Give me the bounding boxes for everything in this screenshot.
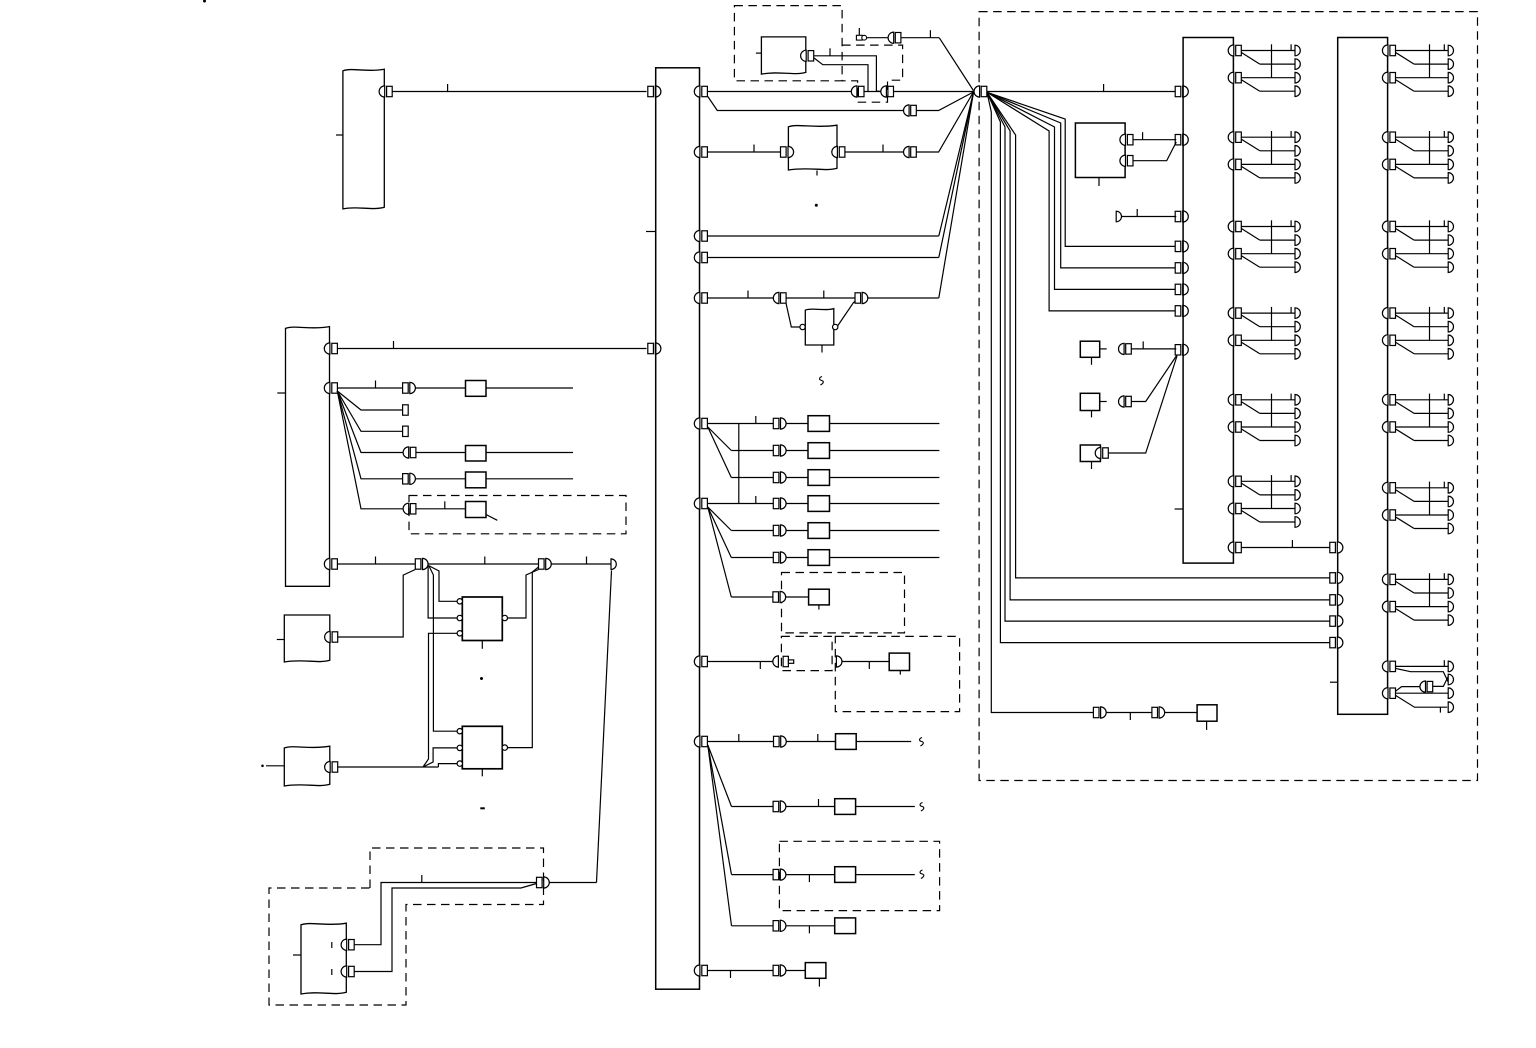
- terminal lamp t3: [1448, 248, 1453, 259]
- wire lamp h2: [1414, 326, 1448, 328]
- wire C1-C2: [864, 91, 881, 93]
- terminal lamp t4: [1448, 173, 1453, 184]
- connector G23-row1: [1382, 221, 1388, 232]
- terminal lamp t4: [1448, 262, 1453, 273]
- wire T2 to PCB1: [1122, 216, 1177, 218]
- wire row3: [731, 477, 773, 479]
- wire A1-1 to PCB1: [1133, 139, 1176, 141]
- fuse panel PCB1: [1183, 38, 1233, 564]
- wire lamp vertical: [1271, 307, 1273, 340]
- connector FB-3: [324, 558, 330, 569]
- wire row10: [732, 806, 774, 808]
- wire lamp d2: [1396, 429, 1415, 441]
- tick sp b: [1439, 707, 1441, 712]
- wire number tick: [882, 145, 884, 153]
- wire number tick: [484, 557, 486, 565]
- wire lamp vertical: [1429, 482, 1431, 515]
- wire lamp h4: [1414, 177, 1448, 179]
- dashed option box top: [734, 6, 842, 81]
- wire lamp h4: [1260, 90, 1295, 92]
- connector bus-R1: [694, 86, 700, 97]
- wire lamp d1: [1396, 490, 1415, 502]
- pin stub diode bottom: [821, 345, 823, 353]
- wire row8 seg2: [842, 661, 889, 663]
- wire fan d: [708, 507, 732, 558]
- pin stub A1 bottom: [1098, 178, 1100, 187]
- terminal lamp t3: [1295, 159, 1300, 170]
- wire lamp h1: [1241, 136, 1295, 138]
- wire FB to bus: [337, 348, 646, 350]
- connector G21-row1: [1382, 45, 1388, 56]
- wire lamp d1: [1241, 139, 1259, 151]
- load box M11: [835, 867, 856, 883]
- connector J15: [888, 32, 894, 43]
- wire SW2 to pair: [1100, 401, 1107, 403]
- connector stub b: [403, 426, 409, 436]
- terminal lamp t1: [1448, 45, 1453, 56]
- battery B1 (broken-edge box): [343, 69, 384, 209]
- terminal lamp t2: [1295, 408, 1300, 419]
- wire fan diag 236: [939, 93, 974, 237]
- wire fan g: [708, 745, 732, 875]
- wire feed seg: [708, 91, 851, 93]
- wire number tick: [730, 971, 732, 979]
- wire fan FB2-a: [337, 391, 402, 410]
- wire row6: [731, 557, 773, 559]
- wire lamp h2: [1414, 63, 1448, 65]
- connector J6: [415, 559, 421, 569]
- connector G13-row2: [1228, 248, 1234, 259]
- connector FAN splice: [974, 86, 980, 97]
- terminal lamp t3: [1448, 159, 1453, 170]
- wire row 298 seg3: [868, 297, 939, 299]
- connector G15-row1: [1228, 394, 1234, 405]
- connector P1: [773, 418, 779, 428]
- wire K2 out: [486, 452, 573, 454]
- wire lamp d1: [1396, 315, 1415, 327]
- wire J9 fan diag: [916, 92, 973, 111]
- terminal lamp t1: [1448, 483, 1453, 494]
- terminal lamp t1: [1295, 308, 1300, 319]
- dash mark: [480, 807, 485, 809]
- terminal lamp t1: [1448, 132, 1453, 143]
- wire J7 end: [551, 563, 611, 565]
- connector G16-row1: [1228, 476, 1234, 487]
- pin stub battery left: [336, 134, 343, 136]
- wire A1-2 to PCB1: [1133, 142, 1176, 161]
- connector P4: [773, 498, 779, 508]
- pin circle U1-out: [502, 615, 507, 620]
- wire number tick: [808, 926, 810, 934]
- wire lamp h4: [1414, 266, 1448, 268]
- junction harness bus: [656, 68, 700, 989]
- wire J6 to U2-1: [429, 566, 457, 731]
- connector G13-row1: [1228, 221, 1234, 232]
- dashed option box row11: [779, 841, 939, 910]
- connector PCB1-Lh: [1175, 345, 1181, 355]
- wire sp alt2: [1396, 695, 1448, 707]
- tick lamp: [1290, 394, 1292, 400]
- terminal lamp t2: [1295, 321, 1300, 332]
- terminal lamp t3: [1448, 601, 1453, 612]
- load box M3: [808, 470, 830, 486]
- pin stub M13: [818, 978, 820, 986]
- connector RL-2: [341, 966, 347, 977]
- connector J13 with tab: [773, 656, 779, 667]
- wire P6-M6: [786, 557, 808, 559]
- wire K1 out: [486, 387, 573, 389]
- connector G26-row2: [1382, 509, 1388, 520]
- wire number tick: [929, 30, 931, 38]
- connector bus-R2: [694, 146, 700, 157]
- wire lamp h2: [1260, 326, 1295, 328]
- wire row13 seg1: [708, 970, 773, 972]
- wire number tick: [755, 416, 757, 424]
- connector G28-row1: [1382, 661, 1388, 672]
- wire lamp h3: [1241, 253, 1295, 255]
- terminal lamp t3: [1295, 72, 1300, 83]
- tick PCB1 left: [1175, 508, 1184, 510]
- wire fuse out: [867, 37, 889, 39]
- wire lamp h3: [1396, 339, 1449, 341]
- connector J8: [537, 877, 543, 887]
- wire row9 seg2: [786, 741, 835, 743]
- terminal lamp t4: [1295, 173, 1300, 184]
- wire P5-M5: [786, 530, 808, 532]
- wire drop M3: [987, 92, 1176, 268]
- connector PCB2-L2: [1330, 595, 1336, 605]
- wire number tick: [375, 381, 377, 389]
- pin stub SW1: [1091, 357, 1093, 365]
- wire drop: [708, 97, 904, 111]
- connector bus-R7: [694, 498, 700, 509]
- wire row 236: [708, 235, 939, 237]
- wire lamp h3: [1396, 426, 1449, 428]
- wire lamp h4: [1260, 353, 1295, 355]
- terminal sp t4: [1448, 702, 1453, 713]
- wire M6 out: [830, 557, 940, 559]
- wire lamp h1: [1241, 312, 1295, 314]
- wire lamp h2: [1414, 412, 1448, 414]
- pin stub S1 left: [277, 639, 285, 641]
- connector J14: [836, 656, 842, 667]
- wire lamp h3: [1241, 339, 1295, 341]
- dot junction: [480, 677, 483, 680]
- wire lamp d1: [1241, 402, 1259, 414]
- terminal lamp t1: [1448, 308, 1453, 319]
- wire P7-M7: [786, 596, 809, 598]
- wire lamp d1: [1396, 581, 1415, 593]
- wire lamp h3: [1241, 77, 1295, 79]
- wire sp row2-pair: [1396, 687, 1421, 692]
- connector bus-left top: [648, 86, 654, 96]
- wire lamp h1: [1241, 480, 1295, 482]
- connector G24-row1: [1382, 308, 1388, 319]
- connector J17: [1119, 396, 1125, 407]
- load box M13: [805, 963, 826, 979]
- wire drop M2: [987, 92, 1176, 289]
- diode module (broken top): [805, 309, 834, 345]
- wire lamp h3: [1241, 426, 1295, 428]
- gate module U2: [462, 726, 502, 769]
- pin circle U1-2: [457, 615, 462, 620]
- connector LC-out: [832, 146, 838, 157]
- wire IL path1: [814, 56, 881, 92]
- terminal lamp t1: [1295, 476, 1300, 487]
- wire lamp h2: [1260, 239, 1295, 241]
- wire drop M4: [987, 92, 1176, 246]
- wire row11 seg2: [786, 874, 835, 876]
- connector P5: [773, 525, 779, 535]
- terminal lamp t2: [1295, 146, 1300, 157]
- pin circle U1-3: [457, 631, 462, 636]
- wire number tick: [817, 734, 819, 742]
- wire number tick: [444, 501, 446, 509]
- squiggle row10: [920, 803, 924, 812]
- connector G23-row2: [1382, 248, 1388, 259]
- terminal lamp t2: [1448, 496, 1453, 507]
- tick lamp: [1290, 307, 1292, 313]
- wire row10 seg2: [786, 806, 835, 808]
- wire number tick: [818, 799, 820, 807]
- connector bus-R10: [694, 965, 700, 976]
- connector P10: [773, 801, 779, 811]
- dot S2: [261, 765, 264, 768]
- wire kink to U2-2: [423, 748, 457, 767]
- wire lamp vertical: [1429, 394, 1431, 427]
- connector stub a: [403, 405, 409, 415]
- connector J11: [773, 292, 779, 303]
- lamp check module (broken edges): [788, 125, 837, 170]
- wire number tick: [755, 496, 757, 504]
- connector J12: [855, 293, 861, 303]
- terminal lamp t2: [1448, 321, 1453, 332]
- terminal lamp t1: [1295, 132, 1300, 143]
- connector PCB1-Lg: [1175, 306, 1181, 316]
- wire step to U2-3: [438, 764, 457, 767]
- wire battery to bus: [392, 91, 646, 93]
- terminal sp t1: [1448, 661, 1453, 672]
- connector P2: [773, 445, 779, 455]
- dashed option box row8-b: [835, 636, 959, 711]
- connector C1a: [851, 86, 857, 97]
- connector G12-row2: [1228, 159, 1234, 170]
- connector G27-row2: [1382, 601, 1388, 612]
- terminal lamp t2: [1448, 146, 1453, 157]
- tick lamp: [1290, 475, 1292, 481]
- wire fan FB2-d: [337, 391, 402, 479]
- connector G25-row2: [1382, 421, 1388, 432]
- dot mark: [815, 204, 818, 207]
- wire diode up to J12: [838, 301, 856, 326]
- wire lamp d1: [1241, 229, 1259, 241]
- wire lamp vertical: [1271, 475, 1273, 508]
- wire J4 to K3: [415, 478, 465, 480]
- tick lamp: [1443, 44, 1445, 50]
- connector P13: [773, 965, 779, 975]
- terminal lamp t1: [1295, 221, 1300, 232]
- wire lamp h4: [1414, 90, 1448, 92]
- wire fan c: [708, 507, 732, 531]
- wire lamp d2: [1396, 256, 1415, 268]
- wire J5 to K4: [416, 508, 466, 510]
- terminal lamp t2: [1448, 59, 1453, 70]
- wire lamp d2: [1241, 429, 1259, 441]
- connector G14-row2: [1228, 335, 1234, 346]
- wire row8 seg1: [708, 661, 773, 663]
- wire fan diag 257: [939, 93, 974, 258]
- relay box K1: [466, 381, 487, 397]
- squiggle row11: [920, 870, 924, 879]
- wire lamp h4: [1414, 353, 1448, 355]
- wire lamp d1: [1241, 53, 1259, 65]
- connector RL-1: [341, 939, 347, 950]
- wire sp alt1: [1396, 668, 1449, 682]
- terminal lamp t3: [1295, 503, 1300, 514]
- wire chain seg3: [1165, 712, 1197, 714]
- wire fan b: [708, 427, 732, 478]
- wire lamp d2: [1396, 342, 1415, 354]
- wire lamp h3: [1396, 163, 1449, 165]
- terminal T1: [611, 559, 616, 570]
- terminal lamp t3: [1295, 422, 1300, 433]
- wire lamp d2: [1241, 511, 1259, 523]
- wire lamp h1: [1396, 399, 1449, 401]
- relay box K4: [466, 502, 487, 518]
- terminal T2: [1116, 211, 1121, 222]
- tick lamp: [1443, 482, 1445, 488]
- wire lamp h4: [1414, 619, 1448, 621]
- connector bus-R5: [694, 292, 700, 303]
- terminal lamp t1: [1295, 395, 1300, 406]
- connector G12-row1: [1228, 132, 1234, 143]
- wire FB-2 feed: [337, 387, 402, 389]
- wire number tick: [1142, 132, 1144, 140]
- wire row4: [708, 503, 774, 505]
- wire row11: [732, 874, 774, 876]
- connector G11-row2: [1228, 72, 1234, 83]
- wire lamp h1: [1396, 578, 1449, 580]
- connector bus-R6: [694, 418, 700, 429]
- dashed option outline rear lamp: [269, 848, 544, 1005]
- sensor box S2 (broken edges): [284, 746, 330, 786]
- wire J11-J12: [786, 297, 855, 299]
- dashed main harness box: [979, 12, 1477, 781]
- terminal lamp t4: [1295, 349, 1300, 360]
- terminal lamp t4: [1448, 523, 1453, 534]
- pin circle U1-1: [457, 599, 462, 604]
- wire row1: [708, 423, 774, 425]
- terminal lamp t4: [1295, 435, 1300, 446]
- wire lamp d1: [1241, 483, 1259, 495]
- wire M11 out: [856, 874, 915, 876]
- connector PCB2-L0: [1330, 542, 1336, 552]
- wire lamp h4: [1414, 440, 1448, 442]
- load box M4: [808, 496, 830, 512]
- connector J7: [539, 559, 545, 569]
- wire number tick: [375, 557, 377, 565]
- connector PCB1-Lb: [1175, 135, 1181, 145]
- wire lamp h1: [1396, 50, 1449, 52]
- wire K3 out: [486, 478, 573, 480]
- wire drop M1: [987, 92, 1176, 311]
- pin circle U2-3: [457, 761, 462, 766]
- load box M7: [809, 589, 830, 605]
- pin stub interlock left: [756, 52, 762, 54]
- pin circle D-in: [800, 324, 805, 329]
- connector G28-row2: [1382, 688, 1388, 699]
- dashed option notch: [842, 45, 903, 102]
- pin stub SW2: [1091, 411, 1093, 418]
- wire number tick: [1129, 713, 1131, 721]
- squiggle continuation: [820, 377, 824, 386]
- wire lamp vertical: [1429, 131, 1431, 164]
- wire lamp h3: [1396, 606, 1449, 608]
- wire PCB1-PCB2: [1241, 547, 1330, 549]
- wire number tick: [808, 875, 810, 883]
- tick lamp: [1443, 307, 1445, 313]
- wire lamp vertical: [1429, 307, 1431, 340]
- connector G16-row2: [1228, 503, 1234, 514]
- switch box SW2: [1080, 393, 1099, 410]
- connector bus-R4: [694, 252, 700, 263]
- wire fan a: [708, 427, 732, 451]
- wire number tick: [753, 145, 755, 153]
- connector bus-R9: [694, 736, 700, 747]
- wire lamp h1: [1241, 50, 1295, 52]
- pin circle U2-out: [502, 745, 507, 750]
- connector S1: [325, 631, 331, 642]
- connector P12: [773, 921, 779, 931]
- wire number tick: [1103, 84, 1105, 92]
- wire J6 to U1-2: [428, 566, 457, 618]
- wire lamp h3: [1241, 508, 1295, 510]
- control module A1: [1075, 123, 1125, 178]
- connector G15-row2: [1228, 421, 1234, 432]
- wire lamp d2: [1241, 166, 1259, 178]
- connector G25-row1: [1382, 394, 1388, 405]
- dashed option box row8-a: [781, 636, 832, 670]
- wire lamp h3: [1396, 514, 1449, 516]
- vertical link bar: [738, 424, 740, 504]
- pin mark 2: [331, 969, 333, 975]
- tick lamp: [1290, 220, 1292, 226]
- wire fan FB2-b: [337, 391, 402, 431]
- terminal lamp t2: [1295, 59, 1300, 70]
- wire RL-2 up: [354, 884, 536, 972]
- wire lamp h2: [1414, 239, 1448, 241]
- dot page mark: [203, 0, 206, 3]
- tick bus left: [646, 231, 656, 233]
- connector PCB1-Ld: [1175, 241, 1181, 251]
- wire number tick: [747, 291, 749, 299]
- connector PCB1-La: [1175, 86, 1181, 96]
- wire number tick: [868, 662, 870, 670]
- wire RL-1 up: [354, 883, 536, 945]
- pin stub M7: [818, 605, 820, 610]
- wire number tick: [829, 48, 831, 56]
- wire M5 out: [830, 530, 940, 532]
- connector P6: [773, 552, 779, 562]
- wire number tick: [1291, 540, 1293, 548]
- pin stub U2 bottom: [481, 769, 483, 777]
- wire lamp d1: [1396, 53, 1415, 65]
- wire U2 out to J7: [508, 567, 539, 748]
- terminal lamp t2: [1448, 588, 1453, 599]
- terminal lamp t4: [1448, 435, 1453, 446]
- wire SW1 to pair: [1100, 348, 1107, 350]
- connector S2: [325, 761, 331, 772]
